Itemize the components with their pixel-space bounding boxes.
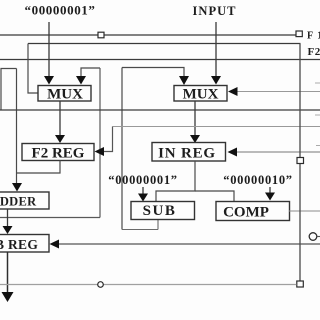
svg-text:“00000001”: “00000001” — [108, 173, 178, 187]
block SUB — [131, 202, 195, 220]
wire SUB feedback riser x=122 from y=229.5 to y=67.5 — [121, 68, 123, 230]
cut-off mark at right edge y=115 — [315, 114, 320, 116]
wire constant 00000001 vertical into left MUX — [48, 22, 50, 77]
block ADDER (cut at left edge) — [0, 192, 49, 209]
wire F2 branch: down at x=28 then right into left MUX side — [28, 44, 38, 94]
arrowhead into COMP top — [265, 193, 275, 201]
wire constant stub into SUB — [142, 187, 144, 194]
svg-text:F2 REG: F2 REG — [32, 146, 85, 162]
svg-text:IN REG: IN REG — [158, 146, 216, 162]
wire y=126.5 from x=112.5 to right edge — [113, 126, 320, 128]
connector square on right bus at y=160 — [297, 158, 304, 164]
arrowhead into right MUX top (INPUT) — [211, 76, 221, 85]
wire feedback riser x=100 from y=217.5 up to y=68 — [99, 68, 101, 218]
block COMP — [216, 202, 290, 221]
wire drop x=112.5 into F2 REG right side — [103, 127, 113, 152]
svg-text:MUX: MUX — [183, 87, 219, 103]
svg-text:SUB: SUB — [143, 203, 177, 219]
wire control into REG right side y=243.5 — [58, 243, 320, 245]
arrowhead into right MUX top (feedback) — [179, 76, 189, 85]
wire horizontal y=217.5 from left edge to x=100 — [0, 217, 100, 219]
wire F2 REG output: down, left, into ADDER — [17, 161, 61, 174]
wire COMP output to right edge — [289, 210, 320, 212]
wire IN REG output: down, split to SUB and COMP — [156, 161, 195, 202]
arrowhead into SUB top — [138, 194, 148, 202]
wire gray control into right MUX right side — [237, 91, 320, 93]
wire feedback into left MUX: y=68 from x=100, down at x=81 — [81, 68, 100, 77]
wire right MUX output down to IN REG — [194, 101, 196, 136]
arrowhead into left MUX top (constant) — [44, 76, 54, 85]
arrowhead into F2 REG top — [55, 135, 65, 143]
svg-text:COMP: COMP — [223, 205, 269, 221]
connector square on F1 bus at x=101 — [98, 32, 104, 38]
svg-text:F 1: F 1 — [307, 31, 320, 42]
arrowhead into F2 REG right side — [95, 147, 105, 156]
wire stub from circle to right edge — [317, 236, 320, 238]
wire left MUX output down to F2 REG — [59, 101, 61, 136]
arrowhead into REG right side — [50, 240, 60, 249]
wire feedback into right MUX: y=67.5 from x=122 to 184, down at 184 — [122, 68, 184, 78]
wire branch to COMP top — [195, 191, 234, 201]
svg-text:B REG: B REG — [0, 237, 38, 252]
wire x=16.5 vertical down to ADDER — [16, 69, 18, 185]
block MUX right — [174, 86, 227, 103]
cut-off mark at right edge y=145 — [316, 145, 320, 147]
block IN REG — [152, 143, 226, 162]
svg-text:F2: F2 — [308, 46, 320, 58]
connector circle near right edge y=236.5 — [309, 233, 317, 241]
wire ADDER output down to REG — [7, 209, 9, 227]
block MUX left — [38, 86, 91, 103]
svg-text:ADDER: ADDER — [0, 195, 37, 209]
arrowhead result output — [2, 292, 14, 302]
cut-off mark at right edge y=83 — [315, 82, 320, 84]
svg-text:“00000001”: “00000001” — [25, 3, 96, 18]
svg-text:INPUT: INPUT — [193, 4, 237, 18]
arrowhead into ADDER top — [12, 183, 22, 192]
wire INPUT vertical into right MUX — [215, 22, 217, 77]
arrowhead into REG top — [3, 226, 13, 234]
arrowhead into left MUX top (feedback) — [76, 76, 86, 85]
wire F1 bus horizontal y=35 — [0, 34, 296, 36]
cut-off register box at left edge (F1 REG) — [1, 69, 17, 111]
wire SUB output horizontal y=229.5 — [122, 229, 158, 231]
wire right vertical bus x=300 — [299, 44, 301, 282]
wire long bus horizontal y=110 — [0, 109, 320, 111]
wire gray bottom horizontal y=284.5 — [0, 284, 297, 286]
svg-text:MUX: MUX — [47, 87, 83, 103]
wire y=152 control into IN REG right side — [237, 151, 320, 153]
arrowhead into IN REG top — [190, 135, 200, 143]
arrowhead into IN REG right side — [228, 148, 238, 157]
block F2 REG — [22, 144, 94, 162]
arrowhead into right MUX right side — [228, 87, 238, 96]
connector square at right end of F1 bus — [296, 31, 302, 37]
wire top boundary horizontal y=59 — [0, 59, 320, 61]
block REG (cut at left edge) — [0, 235, 49, 253]
wire F2 bus horizontal y=43.5 — [28, 43, 301, 45]
wire SUB output stub down from SUB bottom — [157, 220, 159, 230]
connector square at bottom of right bus — [297, 281, 304, 287]
wire constant stub into COMP — [269, 187, 271, 193]
wire REG output down (result) — [7, 252, 9, 293]
svg-text:“00000010”: “00000010” — [223, 173, 293, 187]
connector circle on bottom wire at x=100 — [98, 282, 104, 288]
